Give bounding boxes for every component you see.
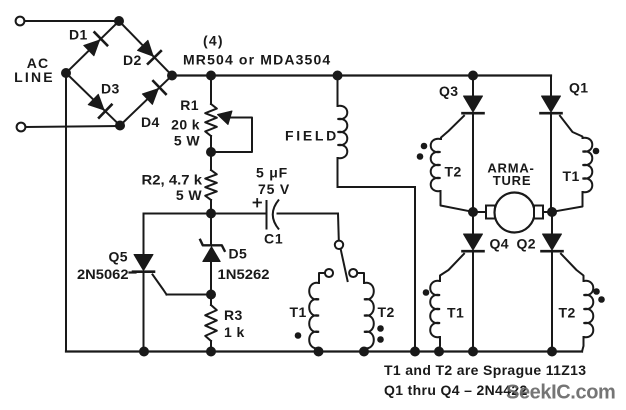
svg-text:5 W: 5 W [174,133,200,149]
svg-text:SeekIC.com: SeekIC.com [506,382,615,404]
svg-text:Q4: Q4 [490,236,509,252]
svg-text:C1: C1 [264,231,284,247]
svg-text:(4): (4) [203,33,224,49]
svg-text:Q5: Q5 [109,249,128,265]
svg-text:FIELD: FIELD [285,128,339,144]
svg-text:1N5262: 1N5262 [218,266,270,282]
svg-text:T1: T1 [563,168,580,184]
svg-text:D4: D4 [141,114,160,130]
svg-text:T2: T2 [559,305,576,321]
svg-text:MR504 or MDA3504: MR504 or MDA3504 [183,52,331,68]
svg-text:75 V: 75 V [258,181,290,197]
svg-text:D1: D1 [69,27,88,43]
svg-text:T1: T1 [290,304,307,320]
svg-text:T1 and T2 are Sprague 11Z13: T1 and T2 are Sprague 11Z13 [384,362,586,378]
svg-text:T1: T1 [447,305,464,321]
svg-text:1 k: 1 k [224,324,245,340]
svg-text:Q2: Q2 [517,236,536,252]
svg-text:T2: T2 [445,164,462,180]
svg-text:D2: D2 [123,52,142,68]
svg-text:5 W: 5 W [176,187,202,203]
svg-text:R3: R3 [224,307,243,323]
svg-text:20 k: 20 k [171,117,200,133]
svg-text:LINE: LINE [14,69,55,85]
svg-text:Q3: Q3 [439,83,458,99]
svg-text:5 μF: 5 μF [256,165,288,181]
svg-text:TURE: TURE [493,173,532,188]
svg-text:R1: R1 [180,97,199,113]
svg-text:R2, 4.7 k: R2, 4.7 k [142,172,203,188]
svg-text:D3: D3 [101,81,120,97]
svg-text:D5: D5 [229,246,248,262]
svg-text:T2: T2 [378,304,395,320]
svg-text:2N5062: 2N5062 [77,266,129,282]
svg-text:Q1: Q1 [569,80,588,96]
